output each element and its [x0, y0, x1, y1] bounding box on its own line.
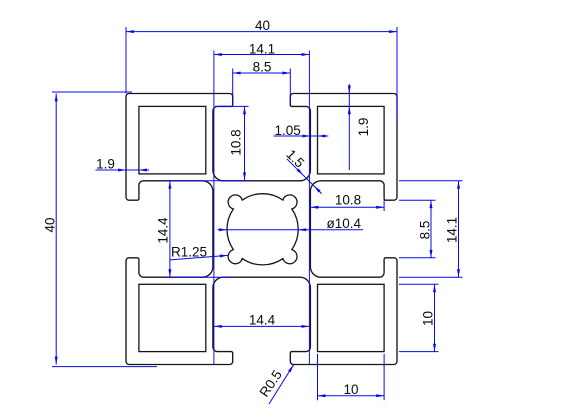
dimension 10 right [399, 284, 439, 351]
svg-text:40: 40 [43, 217, 58, 232]
dimension 14.4 left [156, 181, 249, 277]
svg-text:10: 10 [420, 311, 435, 326]
dimension 8.5 top [233, 60, 291, 106]
extension line right cavity wall [308, 51, 310, 365]
dimension 8.5 right [399, 200, 436, 258]
svg-text:14.1: 14.1 [444, 217, 459, 243]
corner hollow square top-left [139, 106, 206, 173]
dimension 14.1 right [399, 181, 463, 277]
dimension 14.1 top [214, 41, 310, 56]
svg-text:1.9: 1.9 [356, 118, 371, 137]
dimension 10 bottom [318, 354, 385, 400]
corner hollow square top-right [318, 106, 385, 173]
dimension 1.9 left [96, 157, 150, 172]
svg-text:14.1: 14.1 [249, 41, 275, 56]
dimension 10.8 vertical [215, 106, 249, 180]
svg-text:1.05: 1.05 [275, 123, 301, 138]
dimension 40 left [43, 92, 158, 367]
svg-text:R0.5: R0.5 [257, 367, 285, 399]
corner hollow square bottom-right [318, 284, 385, 351]
svg-text:1.9: 1.9 [96, 157, 115, 172]
svg-text:14.4: 14.4 [156, 217, 171, 244]
dimension 1.05 [274, 123, 329, 138]
dimension diameter 10.4 [218, 216, 364, 232]
profile outer outline [126, 94, 397, 365]
svg-text:ø10.4: ø10.4 [327, 216, 362, 231]
leader R0.5 [257, 365, 294, 404]
svg-text:40: 40 [255, 18, 270, 33]
svg-text:8.5: 8.5 [253, 60, 272, 75]
svg-text:8.5: 8.5 [417, 221, 432, 240]
svg-text:1.5: 1.5 [283, 147, 307, 171]
svg-text:10.8: 10.8 [335, 192, 361, 207]
dimension 10.8 horizontal [310, 192, 384, 211]
dimension 1.5 web [283, 147, 321, 194]
svg-text:10: 10 [343, 382, 358, 397]
center bore with four lobes [227, 194, 298, 265]
svg-text:R1.25: R1.25 [171, 245, 207, 260]
corner hollow square bottom-left [139, 284, 206, 351]
dimension 1.9 top wall [348, 84, 371, 170]
svg-text:10.8: 10.8 [229, 129, 244, 155]
dimension 40 top [126, 18, 397, 125]
dimension 14.4 bottom [214, 313, 310, 328]
extension line left cavity wall [213, 51, 215, 365]
leader R1.25 [170, 245, 228, 260]
svg-text:14.4: 14.4 [249, 313, 276, 328]
